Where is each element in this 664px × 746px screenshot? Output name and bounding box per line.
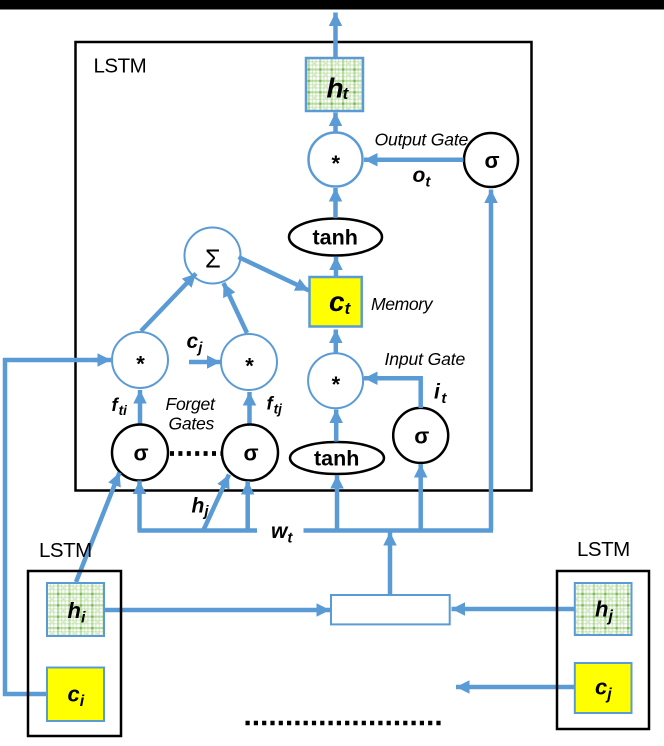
wire long riser to output sigma [489, 190, 494, 531]
wire c_j to left [456, 685, 575, 690]
wire h_j diagonal to right-sigma [204, 475, 230, 531]
node h_t box [306, 58, 363, 111]
svg-text:Σ: Σ [205, 246, 221, 274]
svg-text:ftj: ftj [267, 393, 283, 417]
wire w-line left riser to left-sigma [137, 481, 142, 531]
wire right-sigma to right* [247, 392, 252, 424]
svg-text:hj: hj [192, 495, 210, 521]
wire c_j to right* [189, 360, 221, 365]
wire w-line right riser to right-sigma [245, 481, 250, 531]
svg-text:LSTM: LSTM [94, 55, 147, 78]
svg-text:*: * [332, 151, 341, 176]
wire w-line riser to input sigma [418, 464, 423, 531]
svg-text:Gates: Gates [169, 414, 215, 434]
svg-text:σ: σ [244, 441, 259, 466]
node c_i box [47, 668, 104, 722]
wire lower-tanh to input* [334, 410, 339, 442]
svg-text:σ: σ [485, 148, 500, 173]
svg-text:LSTM: LSTM [39, 539, 92, 562]
wire tanh to output* [333, 188, 338, 218]
wire right* to Sigma [224, 283, 248, 333]
svg-text:σ: σ [414, 424, 429, 449]
svg-text:fti: fti [112, 394, 128, 418]
svg-text:Output Gate: Output Gate [375, 130, 469, 150]
wire concat-rect to w-line [388, 532, 393, 595]
svg-text:Memory: Memory [371, 294, 434, 314]
svg-text:it: it [434, 381, 447, 408]
wire w-line right horizontal [304, 528, 494, 533]
svg-text:*: * [245, 354, 254, 379]
node h_i box [47, 583, 104, 636]
sum node sigma-total [185, 228, 241, 284]
svg-text:wt: wt [271, 520, 293, 547]
top black bar [0, 0, 664, 10]
wire w-line riser to lower tanh [335, 475, 340, 531]
wire output* to h_t [333, 113, 338, 134]
wire h_i to concat rect [104, 608, 330, 613]
svg-text:cj: cj [187, 330, 204, 357]
multiply node forget-right * [221, 334, 277, 390]
svg-text:Input Gate: Input Gate [385, 349, 466, 369]
sigma node forget-left [112, 425, 168, 481]
svg-text:tanh: tanh [313, 226, 358, 250]
svg-text:*: * [136, 352, 145, 377]
dotted ellipsis between forget sigmas [170, 451, 221, 456]
svg-text:Forget: Forget [166, 394, 216, 414]
wire c_t to tanh [334, 257, 339, 277]
wire h_i diagonal to left-sigma [76, 473, 120, 583]
sigma node forget-right [222, 425, 278, 481]
multiply node forget-left * [112, 332, 168, 388]
wire input* to c_t [334, 330, 339, 353]
wire h_t to top [333, 13, 338, 59]
wire Sigma to c_t [239, 257, 310, 291]
multiply node output * [309, 133, 363, 187]
tanh node upper [289, 219, 382, 256]
memory node c_t box [310, 277, 362, 327]
sigma node output gate [464, 133, 518, 187]
sigma node input gate [393, 408, 448, 463]
LSTM child box left [28, 571, 121, 736]
svg-text:σ: σ [134, 441, 149, 466]
wire left* to Sigma [141, 274, 196, 332]
svg-text:tanh: tanh [314, 447, 359, 471]
wire sigma to output* [364, 158, 464, 163]
wire left-sigma to left* [138, 390, 143, 424]
LSTM outer box U1 [76, 42, 532, 491]
tanh node lower [290, 442, 384, 474]
svg-text:LSTM: LSTM [577, 538, 630, 561]
svg-text:*: * [332, 372, 341, 397]
wire w-line left horizontal [138, 528, 258, 533]
bottom ellipsis dotted line [246, 721, 445, 726]
wire h_j to concat rect [452, 607, 575, 612]
multiply node input * [308, 353, 363, 408]
concat rectangle node [331, 595, 450, 624]
svg-text:ot: ot [413, 164, 432, 191]
node h_j box [575, 583, 632, 635]
node c_j box [575, 663, 632, 713]
wire input-sigma elbow to input* [378, 378, 421, 408]
LSTM child box right [557, 571, 649, 729]
wire c_i into left* [5, 360, 101, 694]
